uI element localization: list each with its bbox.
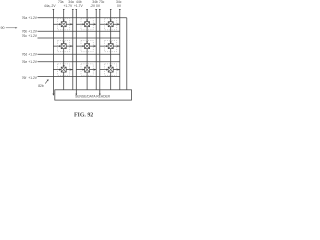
svg-text:76d: 76d xyxy=(22,53,28,57)
svg-text:-2V 0V: -2V 0V xyxy=(90,4,101,8)
reference line REF1 (73a) xyxy=(63,10,65,90)
svg-text:44a,-2V: 44a,-2V xyxy=(44,4,56,8)
word line WL4 (76d) xyxy=(38,53,120,55)
release line RL1 (34a) xyxy=(72,10,74,90)
svg-text:+1.2V: +1.2V xyxy=(28,16,38,20)
memory cell CELL12 with nanotube switch xyxy=(76,19,96,30)
word line WL2 (76b) xyxy=(38,30,120,32)
memory cell CELL13 with nanotube switch xyxy=(100,19,120,30)
svg-text:76b: 76b xyxy=(22,30,28,34)
svg-text:+1.2V: +1.2V xyxy=(28,60,38,64)
svg-text:82b: 82b xyxy=(38,84,44,88)
arrowhead top of BL2 xyxy=(75,9,77,11)
release line RL2 (34b) xyxy=(95,10,97,90)
callout 90 array reference with arrow xyxy=(1,26,18,30)
word line WL1 (76a) xyxy=(38,17,127,19)
memory cell CELL32 with nanotube switch xyxy=(76,64,96,75)
sense/data reader box U1 xyxy=(55,90,132,100)
release line RL3 (34c, 0V) xyxy=(119,10,121,90)
arrowhead top of RL2 xyxy=(95,9,97,11)
arrowhead bottom of BL1 into reader xyxy=(52,94,54,96)
arrowhead bottom of BL2 into reader xyxy=(75,94,77,96)
svg-text:76c: 76c xyxy=(22,34,28,38)
bit line BL1 (44a) xyxy=(52,10,54,95)
arrowhead top of REF2 xyxy=(86,9,88,11)
callout 82b word line reference with arrow xyxy=(38,79,48,88)
svg-text:+1.2V: +1.2V xyxy=(28,34,38,38)
svg-text:+1.7V: +1.7V xyxy=(64,4,74,8)
word line WL3 (76c) xyxy=(38,37,120,39)
memory cell CELL23 with nanotube switch xyxy=(100,40,120,51)
svg-text:+1.7V: +1.7V xyxy=(74,4,84,8)
bit line BL3 (44c) xyxy=(99,10,101,95)
arrowhead bottom of BL3 into reader xyxy=(99,94,101,96)
word line WL5 (76e) xyxy=(38,61,120,63)
arrowhead top of BL1 xyxy=(52,9,54,11)
arrowhead top of REF1 xyxy=(63,9,65,11)
arrowhead top of BL3 xyxy=(99,9,101,11)
memory cell CELL22 with nanotube switch xyxy=(76,40,96,51)
reference line REF3 (73c) xyxy=(110,10,112,90)
arrowhead top of REF3 xyxy=(110,9,112,11)
svg-text:76e: 76e xyxy=(22,60,28,64)
svg-text:+1.2V: +1.2V xyxy=(28,53,38,57)
memory cell CELL33 with nanotube switch xyxy=(100,64,120,75)
memory cell CELL21 with nanotube switch xyxy=(53,40,72,51)
word line WL6 (76f) xyxy=(38,75,120,77)
memory cell CELL11 with nanotube switch xyxy=(53,19,72,30)
svg-text:76f: 76f xyxy=(22,76,27,80)
svg-text:SENSE/DATA READER: SENSE/DATA READER xyxy=(75,94,110,98)
svg-text:90: 90 xyxy=(1,26,5,30)
svg-text:+1.2V: +1.2V xyxy=(28,30,38,34)
wire right edge from WL1 down to reader box xyxy=(126,18,128,90)
arrowhead top of RL3 xyxy=(119,9,121,11)
svg-text:76a: 76a xyxy=(22,16,28,20)
svg-text:+1.2V: +1.2V xyxy=(28,76,38,80)
bit line BL2 (44b) xyxy=(75,10,77,95)
arrowhead top of RL1 xyxy=(72,9,74,11)
memory cell CELL31 with nanotube switch xyxy=(53,64,72,75)
reference line REF2 (73b) xyxy=(86,10,88,90)
svg-text:FIG. 92: FIG. 92 xyxy=(74,112,93,118)
